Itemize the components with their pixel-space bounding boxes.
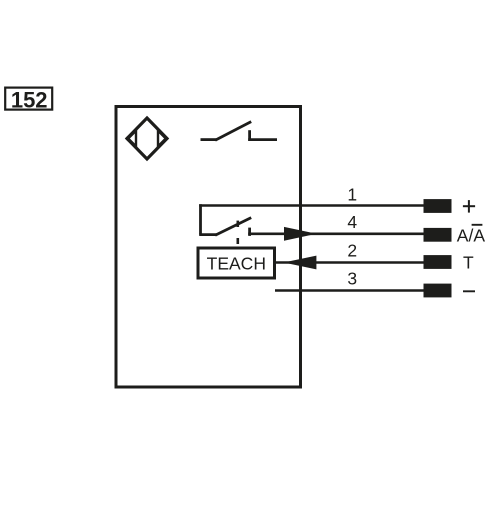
inner switch left lead [199, 233, 216, 236]
wire 3 (pin 3, minus) [275, 289, 424, 292]
left inner triangle of diamond [128, 131, 136, 147]
dashed mechanical link to TEACH [237, 221, 240, 244]
wire 4 (inner contact to pin 4) [248, 233, 424, 236]
svg-text:2: 2 [347, 241, 357, 261]
arrow on wire 4 (output) [284, 227, 317, 241]
svg-text:4: 4 [347, 212, 357, 232]
svg-text:3: 3 [347, 269, 357, 289]
svg-text:152: 152 [11, 87, 48, 112]
right inner triangle of diamond [158, 131, 166, 147]
top switch left lead [201, 138, 217, 141]
wire: vertical drop from wire 1 to inner switch [199, 204, 202, 234]
svg-text:1: 1 [347, 185, 357, 205]
arrow on wire 2 (into TEACH) [284, 256, 317, 270]
svg-text:A/A: A/A [457, 225, 486, 245]
svg-text:T: T [463, 253, 474, 273]
overbar of second A [472, 224, 483, 226]
top switch lever [215, 122, 251, 141]
diamond sensor symbol [127, 118, 167, 159]
top switch right lead [248, 138, 277, 141]
TEACH box [198, 248, 275, 278]
label + (pin 1) [463, 200, 475, 213]
wire 1 (pin 1 to internal node) [199, 204, 424, 207]
pin 4 terminal block [424, 228, 452, 242]
pin 3 terminal block [424, 284, 452, 298]
wire 2 (TEACH input from pin 2) [276, 261, 424, 264]
top switch contact (NO) [201, 122, 278, 141]
top switch contact tick [248, 130, 251, 141]
pin 2 terminal block [424, 255, 452, 269]
inner switch lever [215, 218, 251, 236]
sensor body rectangle [116, 107, 301, 388]
svg-text:TEACH: TEACH [207, 254, 266, 274]
label minus (pin 3) [463, 290, 475, 292]
inner switch contact tick [248, 228, 251, 236]
page number box 152 [5, 87, 52, 112]
pin 1 terminal block [424, 199, 452, 213]
